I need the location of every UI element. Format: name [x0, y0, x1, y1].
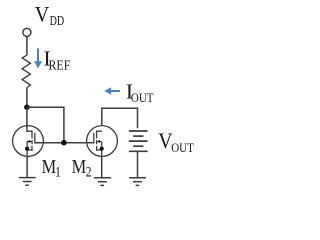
- wire gate bus M1 to M2: [35, 142, 94, 144]
- svg-text:2: 2: [86, 163, 92, 180]
- wire node A to gate corner: [27, 107, 64, 143]
- svg-text:DD: DD: [50, 12, 65, 28]
- ground under battery: [129, 178, 146, 186]
- label M1: [42, 155, 61, 179]
- node B junction dot: [61, 140, 67, 146]
- current arrow IOUT: [104, 87, 120, 94]
- terminal VDD: [23, 28, 31, 36]
- label IREF: [43, 47, 70, 73]
- svg-text:OUT: OUT: [171, 141, 194, 155]
- svg-text:V: V: [35, 1, 50, 26]
- wire M2 source to ground: [101, 156, 103, 178]
- svg-text:M: M: [42, 155, 57, 177]
- node A junction dot: [24, 104, 30, 110]
- transistor M2: [87, 126, 118, 157]
- label IOUT: [126, 80, 154, 105]
- wire M1 source to ground: [26, 156, 28, 178]
- wire M2 drain to battery: [102, 108, 138, 128]
- svg-text:1: 1: [55, 163, 61, 179]
- label M2: [72, 155, 92, 179]
- wire battery to ground: [137, 151, 139, 177]
- svg-text:M: M: [72, 155, 87, 177]
- svg-text:OUT: OUT: [131, 91, 154, 105]
- current arrow IREF: [34, 48, 42, 68]
- label VOUT: [158, 128, 194, 155]
- transistor M1: [13, 126, 44, 157]
- label VDD: [35, 1, 64, 28]
- svg-text:REF: REF: [49, 56, 71, 72]
- ground under M2: [94, 178, 111, 186]
- battery VOUT: [129, 131, 148, 151]
- wire resistor to node A: [26, 88, 28, 108]
- wire node A to M1 drain: [26, 107, 28, 132]
- wire terminal to resistor: [26, 36, 28, 55]
- resistor R: [22, 55, 30, 87]
- ground under M1: [19, 178, 36, 186]
